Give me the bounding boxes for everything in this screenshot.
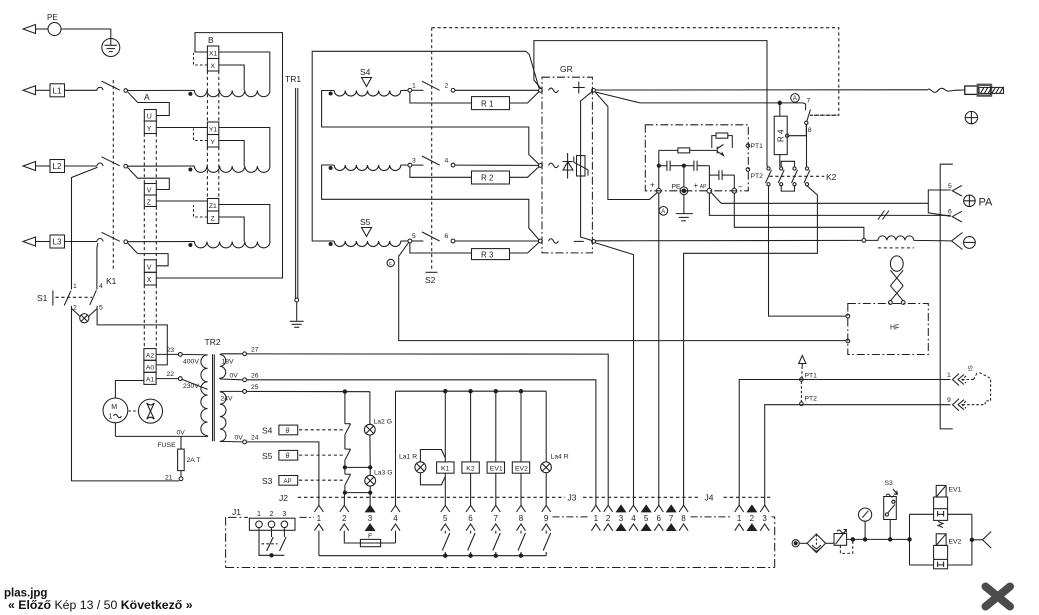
wire 0V to J3 pin1: [247, 380, 596, 505]
L3 terminal box: [50, 235, 65, 248]
J3 pin 3: [617, 505, 626, 530]
wire L3 to contactor: [65, 241, 98, 243]
wire 0V-24 to J2 pin1: [247, 442, 319, 505]
svg-text:PT1: PT1: [751, 143, 764, 150]
svg-text:5: 5: [412, 233, 416, 240]
K2 contact 3: [792, 167, 798, 186]
wire L2 down to S1 contact 1: [72, 167, 98, 289]
wire L1 to TR1 winding 1: [128, 89, 195, 91]
svg-text:J1: J1: [232, 507, 241, 517]
svg-text:22: 22: [167, 371, 175, 378]
winding3 left return to GR in1: [312, 51, 539, 241]
svg-text:A2: A2: [146, 353, 155, 360]
K2 contact 4 bottom to J3 pin 8: [684, 186, 818, 505]
wire S1-5 leg: [97, 306, 167, 365]
svg-text:PA: PA: [979, 197, 994, 209]
wire winding1 right to terminal 1: [401, 89, 408, 91]
svg-text:1: 1: [737, 514, 742, 523]
svg-text:Z: Z: [211, 216, 215, 223]
terminal block A2: [144, 349, 156, 361]
terminal 22 circle: [178, 377, 182, 381]
box Z: [144, 195, 156, 207]
wire to terminal 24: [220, 440, 243, 443]
wire bus left to J2 pin4: [395, 391, 397, 505]
svg-text:6: 6: [948, 209, 952, 216]
lamp La3: [365, 475, 376, 486]
svg-text:L2: L2: [53, 162, 62, 171]
electrode polarity symbol: [965, 111, 977, 123]
svg-text:Y1: Y1: [209, 127, 218, 134]
winding1 left return to GR in2: [322, 91, 539, 165]
svg-text:230V: 230V: [183, 383, 199, 390]
filter enclosure dash-dot: [645, 125, 748, 191]
J1 switch pole 1: [267, 528, 274, 551]
svg-text:1: 1: [317, 514, 322, 523]
GR output circle plus: [592, 88, 596, 92]
svg-text:K2: K2: [826, 172, 837, 182]
svg-text:AP: AP: [284, 479, 292, 485]
K2 bottom bridge 2-3: [781, 186, 794, 191]
wire GR minus to work inductor: [595, 239, 862, 241]
K2 gang dashed: [770, 175, 825, 177]
contact 6 jaw: [948, 209, 962, 223]
wire L3 to TR1 winding 3: [128, 241, 195, 243]
wire Z(A) to Z1: [156, 200, 207, 202]
svg-text:K1: K1: [106, 276, 117, 286]
outlet manifold: [971, 514, 973, 565]
close icon: [986, 587, 1011, 607]
TR1 primary winding 2: [194, 166, 270, 172]
J3 pin 2: [604, 505, 613, 531]
box V lower: [144, 260, 156, 273]
filter minus terminal: [732, 188, 737, 193]
wire La2 to node1: [369, 435, 371, 467]
TR2 secondary coil 18V: [220, 355, 226, 379]
terminal 4 circle: [451, 163, 455, 167]
contact 3-4 stub: [412, 164, 424, 166]
inductor terminal circle: [862, 239, 866, 243]
resistor R1: [472, 97, 510, 110]
wire PT2 to IS contact 9 and J4 pin3: [765, 405, 951, 506]
contactor K1 pole 3: [97, 232, 127, 243]
L2 input arrow: [23, 162, 50, 171]
spark gap arrow symbol: [799, 356, 806, 367]
wire L3 down to S1 contact 4: [96, 243, 99, 290]
svg-text:S5: S5: [360, 217, 371, 227]
relay coil K1: [437, 462, 454, 473]
contact 3-4 blade: [422, 156, 440, 165]
polarity dot winding 1: [189, 92, 192, 95]
terminal 8 circle: [805, 121, 808, 124]
J3 pin 6: [654, 505, 663, 531]
svg-text:2: 2: [750, 514, 755, 523]
column A dashed gang lines: [144, 134, 156, 349]
svg-text:PT1: PT1: [805, 373, 818, 380]
svg-text:S3: S3: [262, 476, 273, 486]
polarity dot winding 2: [189, 168, 192, 171]
manifold riser: [910, 514, 934, 565]
J2 pin 3: [366, 505, 375, 530]
filter resistor left: [659, 148, 717, 153]
control fuse 2A T: [178, 436, 201, 477]
chain wire top: [344, 392, 346, 424]
contact 5 jaw: [948, 183, 962, 196]
pressure regulator: [834, 530, 847, 546]
svg-text:A0: A0: [146, 365, 155, 372]
svg-text:M: M: [111, 404, 117, 411]
wire A2 to terminal 23: [156, 353, 178, 355]
wire X1 right to winding1: [219, 52, 270, 90]
branch L2 to box V: [128, 168, 170, 190]
dot secondary 2: [329, 167, 332, 170]
wire to terminal 27: [220, 353, 243, 356]
svg-text:2: 2: [342, 514, 347, 523]
K2 contact 1 bottom to HF: [769, 186, 846, 316]
R4 bottom lead to K2: [779, 155, 781, 167]
svg-text:0V: 0V: [177, 430, 186, 437]
terminal block A1: [144, 372, 156, 384]
filter PE ground: [676, 195, 693, 221]
box Y1: [207, 122, 218, 135]
svg-text:B: B: [208, 35, 214, 45]
svg-text:AP: AP: [700, 184, 707, 190]
TR1 secondary winding 1: [334, 91, 401, 97]
lamp La4: [541, 462, 552, 473]
svg-text:4: 4: [445, 157, 449, 164]
S1 contact 4-5: [90, 283, 103, 312]
torch electrode hatched holder: [979, 87, 1004, 93]
svg-text:Z1: Z1: [209, 203, 217, 210]
terminal 23 circle: [178, 353, 182, 357]
IS contact 1 jaws: [947, 372, 964, 386]
PT1 test point: [746, 143, 763, 150]
GR input circle 2: [539, 164, 543, 168]
pressure gauge: [859, 508, 872, 539]
svg-text:IS: IS: [969, 365, 975, 371]
S4 sensor triangle: [362, 78, 372, 87]
work polarity symbol: [964, 237, 976, 249]
terminal 1 circle: [408, 88, 412, 92]
svg-text:9: 9: [947, 397, 951, 404]
wire winding2 right to terminal 3: [401, 164, 408, 166]
terminal 2 circle: [451, 88, 455, 92]
J2/J3 boundary dashed: [298, 496, 770, 498]
svg-text:K1: K1: [441, 465, 450, 472]
torch body bar: [940, 164, 953, 429]
box Z: [207, 211, 218, 224]
junction dots pneumatic: [851, 538, 854, 541]
contact 7 stub: [803, 103, 806, 110]
GR internal bus: [581, 92, 593, 241]
svg-text:EV2: EV2: [515, 465, 528, 472]
chain wire: [344, 460, 346, 468]
svg-text:9: 9: [544, 514, 549, 523]
motor bottom wire to 0V: [114, 423, 116, 437]
valve coil EV1: [487, 462, 504, 473]
wire Y1 right to winding2: [219, 128, 270, 167]
La1 bracket: [420, 450, 445, 485]
svg-text:La2 G: La2 G: [374, 419, 393, 426]
motor M circle: [103, 398, 128, 423]
TR1 primary winding 1: [194, 90, 270, 96]
TR1 secondary winding 2: [334, 165, 401, 171]
GR fuse element: [574, 156, 588, 176]
lamp La1: [415, 462, 426, 473]
column B dashed gang lines: [207, 71, 218, 199]
wire L2 to contactor: [65, 165, 98, 167]
PT2 test point: [746, 168, 763, 180]
svg-text:J2: J2: [279, 493, 288, 503]
svg-text:S4: S4: [360, 67, 371, 77]
svg-text:R 1: R 1: [481, 99, 494, 108]
wire filter AP down to torch contact 6: [709, 193, 950, 215]
J1 pin circles: [256, 521, 263, 528]
resistor R3: [472, 249, 510, 260]
work lead jaw: [952, 233, 963, 250]
PT1 dashed stem: [801, 367, 803, 378]
wire node1 to La3: [369, 467, 371, 475]
J3 pin 1: [591, 505, 600, 531]
svg-text:7: 7: [669, 514, 674, 523]
dashed hook at Z: [194, 205, 208, 217]
resistor R1 loop left: [410, 92, 472, 103]
svg-text:La4 R: La4 R: [551, 454, 569, 461]
resistor R1 loop right: [510, 92, 539, 103]
L1 terminal box: [50, 84, 65, 97]
box Y: [207, 135, 218, 148]
PT1-PT2 dashed: [800, 382, 802, 402]
TR1 core earth: [290, 298, 304, 327]
svg-text:1: 1: [594, 514, 599, 523]
J1 switch dashed link: [262, 543, 278, 545]
coil EV2 branch: [520, 391, 522, 505]
wire Z right to winding3: [219, 217, 244, 242]
J3 pin 5: [642, 505, 651, 530]
svg-text:6: 6: [468, 514, 473, 523]
svg-text:HF: HF: [890, 325, 899, 332]
GR diode: [563, 153, 573, 179]
K2 contact 4 top lead from contact 8: [806, 125, 808, 167]
TR2 primary 0V wire: [115, 435, 207, 438]
svg-text:8: 8: [519, 514, 524, 523]
TR1 primary winding 3: [194, 242, 270, 248]
svg-text:8: 8: [681, 514, 686, 523]
svg-text:6: 6: [445, 233, 449, 240]
svg-text:−: −: [738, 183, 743, 192]
S1 actuator bar: [52, 291, 54, 306]
filter transistor: [717, 145, 723, 156]
wire node2 to J2 pin2: [343, 493, 345, 506]
node1 link: [345, 466, 370, 468]
torch electrode body: [978, 85, 991, 96]
svg-text:S2: S2: [425, 275, 436, 285]
GR input circle 3: [539, 239, 543, 243]
terminal block A0: [144, 360, 156, 372]
HF primary terminals: [889, 301, 893, 305]
terminal 6 circle: [451, 239, 455, 243]
machine boundary dash-dot: [226, 517, 775, 568]
contact 1-2 stub: [412, 89, 424, 91]
svg-text:EV1: EV1: [490, 465, 503, 472]
resistor R3 loop right: [510, 243, 539, 254]
svg-text:1: 1: [412, 83, 416, 90]
terminal 25 circle: [243, 390, 247, 394]
contact 1-2 blade: [422, 81, 440, 90]
filter riser plus: [658, 150, 660, 188]
svg-text:4: 4: [393, 514, 398, 523]
svg-text:F: F: [368, 533, 372, 540]
encircled C symbol: [387, 259, 394, 266]
svg-text:R 2: R 2: [481, 174, 494, 183]
wire PT1 to IS contact 1 and J4 pin1: [739, 380, 950, 506]
wire Y(A) to Y1: [156, 127, 207, 129]
L2 terminal box: [50, 160, 65, 173]
S5 contact: [345, 449, 351, 460]
coil K2 branch: [470, 391, 472, 505]
svg-text:Z: Z: [147, 199, 152, 206]
L3 input arrow: [23, 237, 50, 246]
branch L1 to box U: [128, 92, 170, 116]
svg-text:3: 3: [412, 157, 416, 164]
filter AP riser: [708, 166, 710, 189]
svg-text:0V: 0V: [230, 373, 239, 380]
J1 junction dot: [270, 554, 273, 557]
S4 switch box: [262, 425, 343, 435]
svg-text:« Előző Kép 13 / 50 Következő: « Előző Kép 13 / 50 Következő »: [8, 598, 193, 612]
svg-text:J4: J4: [705, 493, 714, 503]
K1 gang dashed line: [112, 80, 114, 271]
terminal 3 circle: [408, 163, 412, 167]
filter minus riser: [733, 175, 735, 188]
pressure switch S3: [884, 480, 898, 539]
pipe regulator to manifold: [847, 538, 910, 540]
bus dots: [444, 390, 447, 393]
IS contact 9 jaws: [947, 397, 964, 411]
wire GR in1 top link: [534, 41, 768, 167]
motor top wire to A1: [115, 381, 143, 399]
svg-text:A1: A1: [146, 377, 155, 384]
svg-text:4: 4: [99, 283, 103, 290]
S1 contact 1-2: [64, 283, 77, 312]
svg-text:S1: S1: [37, 293, 48, 303]
contact 7 dashed link to torch trigger: [810, 114, 839, 116]
svg-text:A: A: [661, 209, 665, 215]
svg-text:La1 R: La1 R: [399, 454, 417, 461]
air inlet: [792, 540, 799, 547]
inductor core dashed: [878, 247, 914, 249]
wire GR minus slant to J3 pin 4: [595, 243, 633, 505]
svg-text:3: 3: [282, 511, 286, 518]
encircled A meter 1: [791, 94, 800, 103]
S5 sensor triangle: [362, 228, 372, 237]
filter PE terminal: [672, 184, 688, 195]
svg-text:400V: 400V: [183, 359, 199, 366]
wire S1-2 down to fuse terminal 21: [72, 306, 180, 481]
svg-text:+: +: [694, 181, 699, 190]
J3 pin 7: [667, 505, 676, 530]
svg-text:1: 1: [109, 414, 113, 421]
svg-text:5: 5: [948, 183, 952, 190]
J4 pin 3: [760, 505, 769, 531]
terminal 24 circle: [243, 440, 247, 444]
filter plus terminal: [656, 188, 661, 193]
TR2 core: [213, 354, 215, 441]
svg-text:3: 3: [762, 514, 767, 523]
chain wire bottom: [344, 485, 346, 493]
svg-text:PE: PE: [47, 13, 58, 22]
PT1 circle: [800, 378, 804, 382]
outlet jaw: [983, 532, 992, 549]
svg-text:X: X: [147, 277, 152, 284]
J3 pin 4: [629, 505, 638, 531]
J1 switch pole 2: [280, 528, 287, 551]
J2 pin 9: [542, 505, 551, 555]
svg-text:J3: J3: [568, 493, 577, 503]
GR enclosure dash-dot: [542, 77, 592, 253]
winding2 left return to GR in3: [322, 165, 539, 240]
fuse F: [360, 533, 395, 547]
torch electrode tip: [965, 86, 978, 94]
box Z1: [207, 199, 218, 212]
svg-text:PE: PE: [672, 184, 682, 191]
svg-text:6: 6: [657, 514, 662, 523]
wire L1 to contactor: [65, 89, 98, 91]
chain wire: [344, 467, 346, 474]
box X1: [207, 46, 218, 59]
encircled A meter 2: [659, 207, 668, 216]
solenoid valve EV2: [934, 534, 972, 569]
PE input arrow: [23, 25, 48, 34]
TR2 primary coil: [201, 355, 208, 436]
wire filter minus to work inductor: [734, 193, 864, 238]
GR ~ symbol 2: [549, 163, 559, 168]
J3 pin 8: [679, 505, 688, 531]
pilot lamp on S1: [72, 309, 98, 323]
svg-text:3: 3: [368, 514, 373, 523]
J2 pin 1: [314, 505, 323, 555]
cable break marks: [878, 211, 889, 220]
svg-text:X1: X1: [209, 51, 218, 58]
solenoid valve EV1: [934, 485, 972, 527]
wire Y right to winding2: [219, 141, 244, 167]
S1 dashed link: [56, 296, 93, 298]
svg-text:8: 8: [808, 127, 812, 134]
wire contact 2 to GR in1: [455, 89, 539, 91]
PA pilot arc symbol: [964, 195, 993, 209]
dot secondary 3: [329, 243, 332, 246]
wire contact 4 to GR in2: [455, 164, 539, 166]
svg-text:5: 5: [443, 514, 448, 523]
svg-text:0V: 0V: [235, 435, 244, 442]
inlet pipe: [799, 542, 807, 544]
resistor R2 loop right: [510, 167, 539, 178]
svg-text:PT2: PT2: [805, 396, 818, 403]
wire node2 to J2 pin3: [369, 493, 371, 506]
svg-text:EV2: EV2: [949, 539, 962, 546]
work inductor: [866, 236, 951, 241]
dashed hook at X: [194, 53, 208, 65]
svg-text:S3: S3: [885, 480, 894, 487]
fan symbol: [139, 399, 163, 423]
resistor R2: [472, 171, 510, 184]
wire GR+ to filter plus: [595, 92, 657, 199]
svg-text:V: V: [147, 188, 152, 195]
coil bus: [396, 390, 547, 392]
dashed hook at Y: [194, 129, 208, 141]
J1 terminal strip: [249, 518, 295, 530]
wire contact 6 to GR in3: [455, 240, 539, 242]
svg-text:TR1: TR1: [285, 74, 301, 84]
